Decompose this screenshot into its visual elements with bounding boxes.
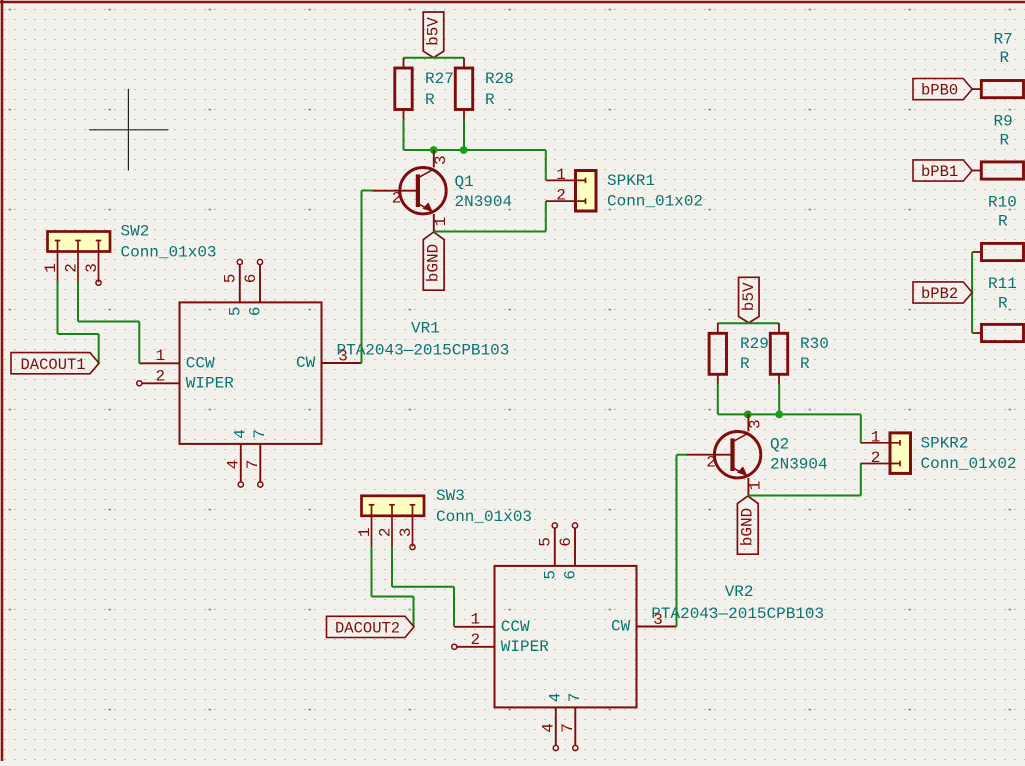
- transistor Q2 2N3904: [687, 414, 828, 496]
- svg-text:2: 2: [377, 527, 395, 537]
- wire: [57, 282, 59, 334]
- wire: [545, 201, 547, 231]
- svg-text:Q2: Q2: [770, 436, 789, 454]
- wire: [413, 597, 415, 627]
- wire: [463, 119, 465, 151]
- global label bPB0: [913, 79, 972, 100]
- svg-text:2: 2: [556, 187, 566, 205]
- svg-text:1: 1: [747, 481, 765, 491]
- wire: [778, 384, 780, 415]
- svg-text:R30: R30: [800, 335, 829, 353]
- svg-text:bGND: bGND: [424, 244, 442, 282]
- wire: [361, 191, 363, 364]
- svg-text:VR1: VR1: [411, 319, 440, 337]
- wire: [391, 547, 393, 587]
- transistor Q1 2N3904: [373, 150, 513, 232]
- svg-text:4: 4: [539, 723, 557, 733]
- svg-text:1: 1: [871, 429, 881, 447]
- svg-text:R: R: [485, 91, 495, 109]
- power #PWR2 flag: [423, 232, 444, 290]
- svg-text:1: 1: [556, 166, 566, 184]
- svg-text:Conn_01x02: Conn_01x02: [921, 455, 1017, 473]
- svg-text:R: R: [800, 355, 810, 373]
- svg-text:2: 2: [63, 263, 81, 273]
- wire: [404, 149, 546, 151]
- svg-text:bPB0: bPB0: [921, 82, 958, 100]
- wire: [717, 384, 719, 415]
- svg-text:R: R: [998, 213, 1008, 231]
- svg-text:1: 1: [471, 611, 481, 629]
- svg-text:6: 6: [562, 570, 580, 580]
- wire: [860, 414, 862, 443]
- wire: [676, 455, 678, 627]
- resistor R29: [709, 323, 769, 384]
- svg-text:Q1: Q1: [455, 173, 474, 191]
- connector SW3 Conn_01x03: [356, 487, 532, 550]
- wire: [372, 596, 414, 598]
- svg-text:2: 2: [392, 190, 402, 208]
- resistor R7: [972, 31, 1025, 98]
- svg-text:2: 2: [471, 631, 481, 649]
- svg-text:1: 1: [356, 527, 374, 537]
- resistor R27: [395, 58, 454, 119]
- cursor crosshair: [89, 89, 169, 171]
- global label DACOUT2: [327, 616, 415, 637]
- connector SPKR2 Conn_01x02: [861, 429, 1017, 474]
- svg-text:CCW: CCW: [186, 355, 215, 373]
- svg-text:4: 4: [231, 429, 249, 439]
- svg-text:5: 5: [226, 306, 244, 316]
- wire: [78, 321, 139, 323]
- potentiometer VR1 PTA2043: [137, 259, 510, 487]
- svg-text:3: 3: [397, 527, 415, 537]
- power #PWR1 flag: [423, 12, 444, 58]
- svg-text:R29: R29: [740, 335, 769, 353]
- wire: [98, 334, 100, 363]
- wire: [371, 547, 373, 597]
- wire: [403, 119, 405, 151]
- resistor R11: [972, 275, 1025, 342]
- svg-text:DACOUT1: DACOUT1: [21, 356, 86, 374]
- svg-text:R27: R27: [425, 70, 454, 88]
- wire: [362, 190, 373, 192]
- svg-text:SW3: SW3: [436, 487, 465, 505]
- svg-text:bGND: bGND: [739, 508, 757, 546]
- svg-text:2N3904: 2N3904: [770, 455, 828, 473]
- global label bPB1: [913, 160, 972, 181]
- svg-text:CW: CW: [296, 354, 316, 372]
- svg-text:R28: R28: [485, 70, 514, 88]
- svg-text:2: 2: [871, 449, 881, 467]
- junction: [744, 411, 752, 419]
- svg-text:R10: R10: [988, 194, 1017, 212]
- svg-text:6: 6: [557, 537, 575, 547]
- svg-text:6: 6: [242, 274, 260, 284]
- resistor R10: [972, 194, 1025, 261]
- svg-text:R11: R11: [988, 275, 1017, 293]
- svg-text:1: 1: [156, 347, 166, 365]
- svg-text:3: 3: [83, 263, 101, 273]
- svg-text:2N3904: 2N3904: [455, 193, 513, 211]
- wire: [434, 231, 546, 233]
- svg-text:7: 7: [244, 460, 262, 470]
- resistor R30: [770, 323, 829, 384]
- wire: [677, 454, 688, 456]
- wire: [77, 282, 79, 322]
- svg-text:3: 3: [747, 419, 765, 429]
- svg-text:DACOUT2: DACOUT2: [335, 620, 400, 638]
- svg-text:b5V: b5V: [425, 17, 443, 46]
- global label bPB2: [913, 282, 972, 303]
- svg-text:R9: R9: [994, 113, 1013, 131]
- power #PWR4 flag: [737, 496, 758, 554]
- wire: [748, 495, 861, 497]
- wire: [138, 322, 140, 364]
- wire: [971, 252, 973, 333]
- svg-text:4: 4: [224, 460, 242, 470]
- power #PWR3 flag: [739, 277, 760, 323]
- svg-text:2: 2: [706, 454, 716, 472]
- svg-text:3: 3: [432, 155, 450, 165]
- svg-text:5: 5: [537, 537, 555, 547]
- svg-text:SPKR2: SPKR2: [921, 435, 969, 453]
- resistor R9: [972, 113, 1025, 180]
- svg-text:WIPER: WIPER: [501, 638, 549, 656]
- resistor R28: [455, 58, 514, 119]
- svg-text:CW: CW: [611, 618, 631, 636]
- wire: [453, 587, 455, 627]
- svg-text:CCW: CCW: [501, 618, 530, 636]
- svg-text:R: R: [425, 91, 435, 109]
- wire: [404, 57, 465, 59]
- svg-text:1: 1: [42, 263, 60, 273]
- svg-text:5: 5: [222, 274, 240, 284]
- svg-text:WIPER: WIPER: [186, 375, 234, 393]
- wire: [860, 463, 862, 495]
- wire: [58, 333, 99, 335]
- svg-text:R: R: [1000, 132, 1010, 150]
- connector SPKR1 Conn_01x02: [546, 166, 703, 211]
- svg-text:R7: R7: [994, 31, 1013, 49]
- svg-text:SW2: SW2: [121, 223, 150, 241]
- svg-text:SPKR1: SPKR1: [607, 172, 655, 190]
- potentiometer VR2 PTA2043: [452, 523, 824, 751]
- svg-text:5: 5: [541, 570, 559, 580]
- svg-text:bPB2: bPB2: [921, 285, 958, 303]
- svg-text:7: 7: [566, 693, 584, 703]
- junction: [430, 146, 438, 154]
- svg-text:2: 2: [156, 367, 166, 385]
- svg-text:R: R: [998, 295, 1008, 313]
- svg-text:7: 7: [559, 723, 577, 733]
- svg-text:Conn_01x03: Conn_01x03: [121, 244, 217, 262]
- wire: [718, 322, 779, 324]
- wire: [718, 413, 861, 415]
- svg-text:Conn_01x02: Conn_01x02: [607, 193, 703, 211]
- wire: [392, 586, 454, 588]
- svg-text:b5V: b5V: [740, 282, 758, 311]
- svg-text:VR2: VR2: [725, 583, 754, 601]
- connector SW2 Conn_01x03: [42, 223, 216, 286]
- svg-text:Conn_01x03: Conn_01x03: [436, 508, 532, 526]
- wire: [545, 150, 547, 180]
- junction: [775, 411, 783, 419]
- svg-text:6: 6: [247, 306, 265, 316]
- svg-text:bPB1: bPB1: [921, 163, 958, 181]
- svg-text:1: 1: [432, 217, 450, 227]
- svg-text:R: R: [1000, 49, 1010, 67]
- svg-text:4: 4: [546, 693, 564, 703]
- global label DACOUT1: [11, 353, 99, 374]
- junction: [460, 146, 468, 154]
- svg-text:7: 7: [251, 429, 269, 439]
- svg-text:R: R: [740, 355, 750, 373]
